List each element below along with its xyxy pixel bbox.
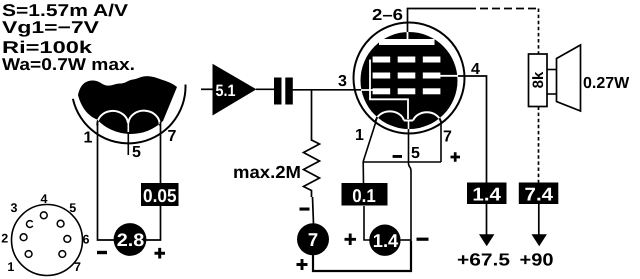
svg-text:+67.5: +67.5	[457, 250, 510, 270]
pin 4 screen lead wire to supply	[458, 76, 487, 184]
polarity label + at battery 2.8	[155, 248, 166, 259]
wire capacitor to grid pin 3 of output tube	[293, 89, 364, 91]
wire speaker to +90 supply (dashed)	[538, 107, 540, 184]
svg-text:4: 4	[41, 192, 48, 206]
heater arcs of output tube (white parts inside disc)	[376, 111, 442, 122]
polarity label - at battery 2.8	[97, 251, 107, 254]
grid g3 dashes (top row)	[373, 57, 441, 63]
socket pin 7	[59, 251, 81, 274]
pin 5 cathode lead with jog	[409, 129, 412, 242]
input source arrow 5.1	[213, 64, 257, 116]
wire arrow to coupling capacitor	[256, 88, 275, 90]
wire pin1 of top-view tube down to 2.8 battery	[98, 124, 115, 240]
wire resistor to bias battery 7	[313, 197, 314, 224]
svg-text:5.1: 5.1	[216, 82, 236, 100]
speaker transformer winding 8k	[529, 54, 548, 107]
svg-text:2: 2	[1, 232, 8, 246]
socket pin 6	[64, 233, 90, 247]
svg-text:5: 5	[411, 145, 420, 162]
wire bottom rail battery 7 to cathode line	[313, 241, 411, 271]
wire meter to +90 arrow	[538, 204, 540, 236]
svg-text:0.1: 0.1	[352, 185, 376, 206]
tube V1 top-view envelope arc	[73, 85, 186, 144]
anode lead to top, pins 2-6	[408, 9, 469, 33]
wire meter 0.05 to 2.8 battery	[146, 206, 161, 240]
polarity label + below battery 7	[297, 259, 308, 270]
tube V1 schematic envelope	[354, 23, 465, 134]
pin 7 heater lead	[440, 122, 442, 162]
svg-text:3: 3	[11, 201, 18, 215]
svg-text:1: 1	[355, 127, 364, 144]
polarity label - above battery 7	[300, 208, 310, 211]
tube V1 cathode centre lead below fill	[127, 124, 129, 155]
svg-text:4: 4	[471, 61, 480, 78]
battery 1.4 (filament)	[369, 225, 400, 256]
svg-text:Vg1=−7V: Vg1=−7V	[2, 18, 100, 37]
svg-text:2.8: 2.8	[117, 230, 145, 250]
svg-text:3: 3	[338, 73, 347, 90]
svg-text:1.4: 1.4	[373, 230, 399, 251]
wire battery 1.4 to cathode rail	[401, 239, 411, 241]
svg-text:1: 1	[84, 130, 93, 147]
screen grid lead pin 4 (white inside disc)	[437, 75, 458, 77]
pin 1 heater lead (diagonal)	[363, 123, 375, 162]
grid g2 dashes (middle row)	[373, 73, 441, 79]
heater arcs of output tube (black parts)	[376, 111, 442, 122]
speaker cone	[547, 45, 581, 111]
wire input stub	[201, 88, 213, 90]
meter 1.4 (screen current)	[467, 183, 507, 205]
tube V1 heater filament arcs (white parts inside anode fill)	[97, 111, 159, 132]
svg-text:7: 7	[443, 129, 452, 146]
grid g1 dashes (bottom row)	[373, 88, 441, 94]
polarity label - left of 5	[393, 155, 402, 158]
wire meter 0.1 down to battery 1.4	[364, 206, 370, 240]
svg-text:5: 5	[132, 144, 141, 161]
svg-text:7: 7	[308, 229, 318, 250]
battery 7 (grid bias)	[297, 223, 329, 255]
tube V1 anode fill (top view, wavy blob)	[78, 76, 177, 134]
tube socket bottom view	[12, 205, 83, 276]
grid resistor max.2M (zigzag)	[304, 140, 320, 197]
arrow to +67.5 supply	[479, 234, 494, 246]
svg-text:8k: 8k	[530, 71, 547, 88]
socket pin 1	[7, 251, 32, 274]
anode lead inside disc	[407, 32, 409, 40]
meter 0.1	[342, 183, 388, 206]
svg-text:7: 7	[168, 128, 177, 145]
socket pin 5	[57, 201, 76, 227]
internal strap g3 to cathode	[370, 60, 408, 120]
svg-text:6: 6	[83, 233, 90, 247]
svg-text:0.27W: 0.27W	[583, 75, 630, 92]
svg-text:5: 5	[69, 201, 76, 215]
meter 0.05	[141, 183, 179, 206]
polarity label + right of pin 7 wire	[451, 152, 461, 162]
coupling capacitor C1	[274, 78, 293, 105]
wire meter to +67.5 arrow	[486, 204, 488, 236]
polarity label + left of battery 1.4	[345, 234, 357, 246]
tube V1 internal black disc	[361, 32, 458, 129]
svg-text:2–6: 2–6	[372, 7, 403, 24]
anode plate	[379, 39, 435, 45]
svg-text:Wa=0.7W max.: Wa=0.7W max.	[2, 55, 135, 74]
control grid lead pin 3 (white inside disc)	[361, 89, 378, 91]
tube V1 heater filament arcs (black parts outside anode fill)	[97, 111, 159, 126]
svg-text:1.4: 1.4	[472, 184, 501, 205]
pin 5 white lead inside disc	[408, 121, 410, 131]
wire anode top to speaker (dashed)	[538, 9, 540, 55]
battery 2.8	[114, 223, 147, 256]
meter 7.4 (anode current)	[519, 183, 559, 205]
wire anode to speaker (dashed top segment)	[468, 8, 539, 10]
wire node junction to grid resistor	[311, 90, 313, 141]
svg-text:0.05: 0.05	[143, 185, 177, 206]
polarity label - right of battery 1.4	[417, 238, 429, 241]
wire pin7 of top-view tube down to meter 0.05	[160, 122, 162, 184]
svg-text:max.2M: max.2M	[233, 162, 301, 182]
svg-text:1: 1	[7, 260, 14, 274]
svg-text:+90: +90	[520, 250, 554, 270]
arrow to +90 supply	[532, 234, 547, 246]
svg-text:7.4: 7.4	[525, 184, 554, 205]
socket pin 3 (keyed hole)	[11, 201, 33, 227]
svg-text:7: 7	[74, 260, 81, 274]
socket pin 4	[40, 192, 47, 219]
socket pin 2	[1, 232, 27, 246]
wire pin7 to pin1 horizontal	[363, 162, 441, 184]
